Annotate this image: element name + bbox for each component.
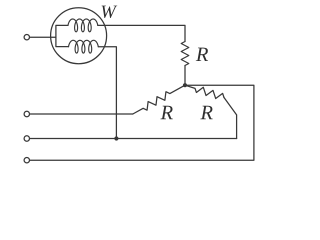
label R1 xyxy=(196,48,208,61)
resistor R1 xyxy=(181,42,189,66)
wire terminal1 to wattmeter xyxy=(30,36,56,38)
coil L1 top (current coil) xyxy=(68,19,98,32)
wire R1 to node xyxy=(184,66,186,86)
wattmeter U1 circle xyxy=(51,8,107,64)
wire node to right rail down to bottom xyxy=(30,85,254,160)
label W xyxy=(102,6,118,18)
node junction dot xyxy=(183,83,187,87)
label R2 xyxy=(160,106,172,119)
terminal 4 xyxy=(24,158,29,163)
junction dot J1 xyxy=(114,136,118,140)
wire bracket xyxy=(56,25,69,46)
resistor R3 (right diagonal) xyxy=(185,85,224,98)
label R3 xyxy=(200,106,212,119)
terminal 2 xyxy=(24,111,29,116)
wire R3 elbow down xyxy=(224,98,237,139)
resistor R2 (left diagonal) xyxy=(133,85,185,114)
wire R3 to terminal 3 xyxy=(30,138,237,140)
wire R2 to terminal 2 xyxy=(30,113,133,115)
terminal 1 xyxy=(24,35,29,40)
coil L2 bottom (voltage coil) xyxy=(69,40,99,53)
terminal 3 xyxy=(24,136,29,141)
wire top coil to R1 corner xyxy=(98,25,185,41)
wire bottom coil down to wire3 xyxy=(98,47,116,139)
